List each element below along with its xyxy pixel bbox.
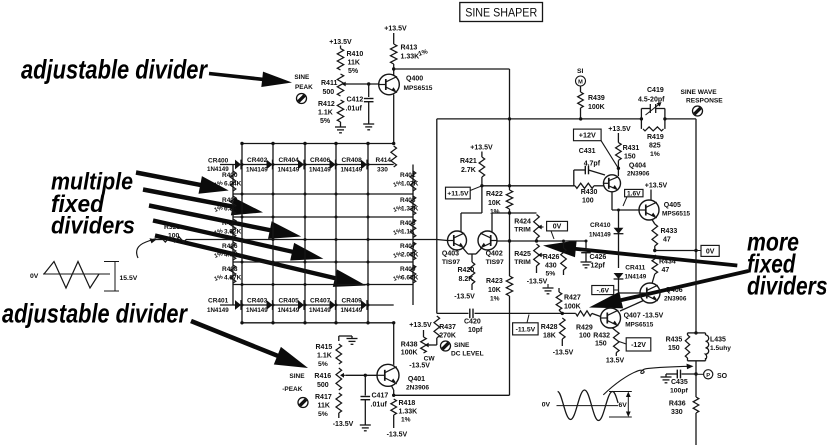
resistor R417 11K 5% bbox=[315, 393, 342, 418]
resistor R418 1.33K 1% bbox=[391, 399, 417, 428]
ground (C426) bbox=[581, 262, 592, 268]
svg-text:RESPONSE: RESPONSE bbox=[686, 98, 723, 105]
diode CR401 1N4149 bbox=[207, 298, 241, 315]
wire output line (right edge) bbox=[694, 119, 697, 445]
svg-text:R403: R403 bbox=[400, 197, 416, 204]
diode CR404 1N4149 bbox=[278, 157, 305, 174]
wire bottom diode row bbox=[220, 304, 394, 306]
svg-text:CR401: CR401 bbox=[208, 298, 229, 305]
svg-text:150: 150 bbox=[624, 154, 636, 161]
svg-text:1N4149: 1N4149 bbox=[278, 307, 300, 314]
resistor R415 1.1K 5% bbox=[316, 344, 342, 368]
svg-text:100K: 100K bbox=[401, 350, 418, 357]
svg-text:+13.5V: +13.5V bbox=[329, 39, 352, 46]
transistor Q406 2N3906 bbox=[640, 283, 687, 303]
wire feedback top bus right of C419 bbox=[665, 118, 696, 120]
transistor Q404 2N3906 bbox=[604, 163, 650, 192]
svg-text:12pf: 12pf bbox=[591, 263, 606, 270]
svg-text:18K: 18K bbox=[543, 333, 556, 340]
svg-text:-13.5V: -13.5V bbox=[527, 279, 548, 286]
diode CR408 1N4149 bbox=[341, 157, 368, 174]
resistor R430 100 bbox=[575, 183, 604, 204]
svg-text:4.7pf: 4.7pf bbox=[584, 161, 601, 168]
junction dots matrix bbox=[241, 163, 370, 307]
triangle wave sketch bbox=[43, 262, 138, 292]
ground (R412) bbox=[335, 122, 346, 133]
svg-text:-13.5V: -13.5V bbox=[387, 432, 408, 439]
curved pointer to R328 bbox=[137, 238, 157, 258]
potentiometer R438 100K bbox=[401, 330, 437, 357]
svg-text:1.1K: 1.1K bbox=[318, 110, 333, 117]
resistor R404 3.92K 1% bbox=[214, 219, 242, 238]
svg-text:R328: R328 bbox=[164, 224, 180, 231]
annotation more fixed dividers bbox=[747, 227, 828, 301]
svg-text:1.33K: 1.33K bbox=[401, 54, 420, 61]
svg-text:100pf: 100pf bbox=[670, 388, 688, 395]
svg-text:MPS6515: MPS6515 bbox=[625, 322, 654, 329]
svg-text:+12V: +12V bbox=[579, 131, 596, 140]
resistor R400 6.04K 1% bbox=[214, 171, 242, 191]
resistor R407 2.05K 1% bbox=[393, 242, 419, 260]
svg-text:R438: R438 bbox=[401, 342, 418, 349]
resistor R429 100 bbox=[576, 311, 593, 340]
svg-text:+13.5V: +13.5V bbox=[645, 183, 668, 190]
svg-text:CR411: CR411 bbox=[625, 265, 645, 272]
svg-text:1N4149: 1N4149 bbox=[341, 307, 363, 314]
annotation arrow to SINE -PEAK bbox=[190, 319, 308, 368]
diode CR406 1N4149 bbox=[309, 157, 336, 174]
resistor R436 330 bbox=[669, 397, 699, 416]
wire node to Q403 collector bbox=[461, 186, 482, 232]
svg-text:5%: 5% bbox=[348, 68, 359, 75]
transistor Q403 TIS97 bbox=[442, 231, 467, 266]
svg-text:R425: R425 bbox=[514, 251, 531, 258]
resistor R410 11K 5% bbox=[337, 49, 363, 76]
node 0V (output) bbox=[696, 245, 719, 256]
svg-text:-13.5V: -13.5V bbox=[333, 421, 354, 428]
resistor R433 47 bbox=[652, 220, 677, 251]
ground (C412) bbox=[363, 124, 374, 130]
svg-text:P: P bbox=[706, 373, 710, 379]
svg-text:10K: 10K bbox=[488, 287, 501, 294]
svg-text:R412: R412 bbox=[318, 101, 335, 108]
svg-text:1N4149: 1N4149 bbox=[278, 167, 300, 174]
svg-text:100: 100 bbox=[582, 198, 594, 205]
annotation arrow 1 into divider matrix bbox=[136, 170, 229, 194]
svg-text:R418: R418 bbox=[399, 400, 416, 407]
title box SINE SHAPER bbox=[460, 3, 543, 22]
svg-text:1N4149: 1N4149 bbox=[246, 307, 268, 314]
svg-text:.01uf: .01uf bbox=[346, 106, 363, 113]
svg-text:PEAK: PEAK bbox=[295, 84, 313, 91]
diode CR411 1N4149 bbox=[614, 265, 647, 281]
node +11.5V bbox=[446, 186, 482, 199]
svg-text:0V: 0V bbox=[30, 273, 39, 280]
svg-text:10pf: 10pf bbox=[468, 327, 483, 334]
screwdriver adjust SINE -PEAK bbox=[298, 398, 308, 408]
svg-text:0V: 0V bbox=[706, 248, 715, 255]
wire C420 line bbox=[437, 312, 576, 315]
svg-text:CR402: CR402 bbox=[247, 157, 268, 164]
svg-text:6.3K: 6.3K bbox=[224, 206, 238, 213]
svg-text:1N4149: 1N4149 bbox=[207, 307, 229, 314]
resistor R423 10K 1% bbox=[486, 276, 513, 303]
annotation arrow 3 into divider matrix bbox=[149, 203, 302, 239]
svg-text:R422: R422 bbox=[486, 191, 503, 198]
svg-text:R429: R429 bbox=[576, 325, 593, 332]
svg-text:M: M bbox=[578, 80, 583, 86]
wire matrix top bus bbox=[240, 142, 395, 145]
svg-text:R437: R437 bbox=[439, 324, 456, 331]
svg-text:CR404: CR404 bbox=[279, 157, 300, 164]
resistor R405 1.1K 1% bbox=[393, 219, 416, 238]
svg-text:1.6V: 1.6V bbox=[627, 191, 641, 198]
svg-text:11K: 11K bbox=[318, 403, 330, 410]
svg-text:6.65K: 6.65K bbox=[401, 275, 419, 282]
svg-text:-PEAK: -PEAK bbox=[282, 386, 303, 393]
transistor Q401 2N3906 bbox=[377, 364, 429, 391]
annotation arrow to SINE PEAK bbox=[209, 72, 292, 87]
wire R416 wiper to Q401 base bbox=[340, 373, 377, 378]
svg-text:CR407: CR407 bbox=[310, 298, 331, 305]
resistor R328 100 bbox=[155, 224, 233, 242]
svg-text:10K: 10K bbox=[488, 200, 501, 207]
svg-text:+13.5V: +13.5V bbox=[409, 322, 432, 329]
svg-text:CR405: CR405 bbox=[279, 298, 300, 305]
svg-text:11K: 11K bbox=[348, 60, 360, 67]
resistor R402 6.3K 1% bbox=[214, 196, 238, 215]
svg-text:R413: R413 bbox=[401, 45, 418, 52]
wire R411 wiper to Q400 base bbox=[345, 83, 380, 85]
node +13.5V (R413 top) bbox=[384, 26, 407, 33]
svg-text:R436: R436 bbox=[669, 401, 686, 408]
wire feedback box left edge bbox=[436, 119, 438, 314]
svg-text:1N4149: 1N4149 bbox=[309, 307, 331, 314]
svg-text:5%: 5% bbox=[318, 361, 328, 368]
svg-text:1N4149: 1N4149 bbox=[341, 167, 363, 174]
diode CR407 1N4149 bbox=[309, 298, 336, 315]
screwdriver adjust SINE WAVE RESPONSE bbox=[693, 106, 703, 116]
wire R422 bottom to R424 bbox=[510, 212, 537, 214]
node +13.5V (R410 top) bbox=[329, 39, 352, 46]
svg-text:1%: 1% bbox=[650, 151, 660, 158]
wire bbox=[340, 46, 342, 49]
annotation arrow left-down to Q407 bbox=[589, 269, 749, 308]
svg-text:6.04K: 6.04K bbox=[224, 181, 242, 188]
svg-text:CR406: CR406 bbox=[310, 157, 331, 164]
resistor R427 100K bbox=[556, 288, 581, 313]
svg-text:SO: SO bbox=[717, 373, 728, 380]
resistor R408 4.87K 1% bbox=[214, 265, 242, 283]
annotation arrow left-up to 0V trim node bbox=[543, 240, 738, 267]
node -.6V bbox=[592, 286, 619, 295]
ground (R415 top) bbox=[339, 336, 358, 344]
wire emitters Q403/Q402 join bbox=[463, 248, 482, 262]
wire diode chain CR410/CR411 bbox=[617, 209, 640, 294]
diode CR405 1N4149 bbox=[278, 298, 305, 315]
svg-text:4.87K: 4.87K bbox=[224, 275, 242, 282]
wire matrix right column bbox=[412, 165, 414, 306]
svg-text:330: 330 bbox=[671, 409, 683, 416]
svg-text:CR403: CR403 bbox=[247, 298, 268, 305]
svg-text:-13.5V: -13.5V bbox=[553, 350, 574, 357]
svg-text:3.92K: 3.92K bbox=[224, 229, 242, 236]
wire Q401 collector to matrix bus bbox=[393, 323, 395, 365]
node +12V bbox=[574, 129, 619, 168]
transistor Q405 MPS6515 bbox=[639, 200, 691, 220]
node +13.5V (Q405 collector) bbox=[645, 183, 668, 201]
terminal SI bbox=[576, 68, 586, 86]
svg-text:R414: R414 bbox=[376, 157, 392, 164]
wire matrix left column bbox=[232, 165, 234, 306]
resistor R420 8.2K bbox=[458, 262, 475, 290]
svg-text:R431: R431 bbox=[623, 145, 640, 152]
svg-text:+11.5V: +11.5V bbox=[447, 191, 469, 198]
ground (C435) bbox=[661, 374, 672, 383]
svg-text:2N3906: 2N3906 bbox=[406, 385, 429, 392]
wire Q406 emitter to Q407 collector bbox=[620, 301, 644, 312]
svg-text:2N3906: 2N3906 bbox=[627, 171, 650, 178]
svg-text:CW: CW bbox=[424, 356, 436, 363]
squiggle pointer to output bbox=[603, 364, 693, 395]
wire matrix bottom bus bbox=[240, 321, 395, 324]
svg-text:MPS6515: MPS6515 bbox=[662, 211, 691, 218]
svg-text:1.5uhy: 1.5uhy bbox=[710, 345, 731, 352]
svg-text:2.05K: 2.05K bbox=[401, 252, 419, 259]
diode CR409 1N4149 bbox=[341, 298, 368, 315]
svg-text:100: 100 bbox=[168, 233, 180, 240]
resistor R413 1.33K 1% bbox=[391, 33, 429, 69]
annotation adjustable divider (top) bbox=[21, 55, 208, 85]
diode CR410 1N4149 bbox=[589, 222, 623, 239]
svg-text:1.1K: 1.1K bbox=[317, 353, 332, 360]
capacitor C412 .01uf bbox=[346, 82, 374, 124]
node -13.5V (R420) bbox=[454, 294, 475, 301]
svg-text:2.7K: 2.7K bbox=[461, 167, 476, 174]
resistor R401 1.07K 1% bbox=[393, 171, 419, 191]
svg-text:SI: SI bbox=[577, 68, 584, 75]
svg-text:R401: R401 bbox=[400, 172, 416, 179]
screwdriver adjust SINE DC LEVEL bbox=[441, 341, 484, 358]
svg-text:R416: R416 bbox=[314, 373, 331, 380]
svg-text:TRIM: TRIM bbox=[514, 227, 531, 234]
svg-text:1.33K: 1.33K bbox=[401, 206, 419, 213]
label SINE WAVE RESPONSE bbox=[681, 89, 724, 105]
svg-text:R405: R405 bbox=[400, 220, 416, 227]
svg-text:R410: R410 bbox=[347, 51, 364, 58]
node 0V (trim) bbox=[547, 221, 568, 239]
svg-text:Q407 -13.5V: Q407 -13.5V bbox=[624, 313, 664, 320]
svg-text:TIS97: TIS97 bbox=[442, 259, 460, 266]
wire R433/R434 node to output line bbox=[653, 249, 696, 252]
node +13.5V (R437) bbox=[409, 322, 432, 329]
svg-text:+13.5V: +13.5V bbox=[470, 145, 493, 152]
wire base line to Q404 bbox=[480, 184, 575, 187]
svg-text:47: 47 bbox=[662, 267, 670, 274]
svg-text:-.6V: -.6V bbox=[597, 288, 610, 295]
svg-text:4.0K: 4.0K bbox=[224, 252, 238, 259]
potentiometer R416 500 bbox=[314, 368, 341, 390]
ground (R427 top) bbox=[543, 284, 554, 294]
sine wave sketch bbox=[557, 390, 632, 421]
wire Q402 base to trim network bbox=[497, 239, 586, 242]
potentiometer R424 TRIM bbox=[514, 215, 543, 243]
wire top diode row bbox=[220, 164, 394, 166]
svg-text:C417: C417 bbox=[372, 393, 389, 400]
resistor R428 18K bbox=[541, 318, 565, 346]
node +13.5V (R431 top) bbox=[608, 126, 631, 133]
resistor R419 825 1% bbox=[643, 127, 664, 158]
label 0V (sine sketch) bbox=[542, 402, 551, 409]
svg-text:150: 150 bbox=[668, 345, 680, 352]
transistor Q402 TIS97 bbox=[478, 231, 504, 266]
node -11.5V bbox=[513, 315, 539, 335]
node -12V bbox=[619, 338, 651, 351]
svg-text:R430: R430 bbox=[581, 189, 598, 196]
svg-text:825: 825 bbox=[649, 143, 661, 150]
svg-text:SINE: SINE bbox=[294, 74, 310, 81]
svg-text:100K: 100K bbox=[564, 304, 581, 311]
wire Q400 collector to R413 bbox=[392, 67, 395, 75]
svg-text:R407: R407 bbox=[400, 243, 416, 250]
svg-text:TRIM: TRIM bbox=[514, 259, 531, 266]
annotation multiple fixed dividers bbox=[51, 169, 135, 240]
wire Q400 emitter to matrix bbox=[393, 95, 395, 144]
svg-text:dividers: dividers bbox=[747, 271, 828, 301]
node 1.6V bbox=[623, 189, 643, 206]
resistor R422 10K 1% bbox=[486, 190, 513, 216]
svg-text:+13.5V: +13.5V bbox=[384, 26, 407, 33]
svg-text:DC LEVEL: DC LEVEL bbox=[451, 351, 484, 358]
inductor L435 1.5uhy bbox=[688, 333, 732, 361]
svg-text:C435: C435 bbox=[671, 379, 688, 386]
annotation adjustable divider (bottom) bbox=[2, 299, 188, 329]
svg-text:R419: R419 bbox=[647, 134, 664, 141]
svg-text:150: 150 bbox=[595, 341, 607, 348]
svg-text:270K: 270K bbox=[439, 333, 456, 340]
svg-text:15.5V: 15.5V bbox=[120, 275, 138, 282]
node -13.5V (R438) bbox=[409, 363, 430, 370]
diode CR403 1N4149 bbox=[246, 298, 273, 315]
svg-text:13.5V: 13.5V bbox=[606, 358, 625, 365]
svg-text:R415: R415 bbox=[316, 344, 333, 351]
svg-text:CR408: CR408 bbox=[342, 157, 363, 164]
annotation arrow 5 into divider matrix bbox=[155, 233, 367, 287]
svg-text:R400: R400 bbox=[222, 172, 238, 179]
capacitor C431 4.7pf bbox=[574, 148, 605, 186]
svg-text:R424: R424 bbox=[514, 219, 531, 226]
svg-text:5%: 5% bbox=[318, 411, 328, 418]
svg-text:CR400: CR400 bbox=[208, 158, 229, 165]
svg-text:47: 47 bbox=[663, 237, 671, 244]
svg-text:100: 100 bbox=[579, 333, 591, 340]
svg-text:Q400: Q400 bbox=[406, 76, 423, 83]
svg-text:-13.5V: -13.5V bbox=[409, 363, 430, 370]
svg-text:R411: R411 bbox=[321, 80, 337, 87]
annotation arrow 4 into divider matrix bbox=[153, 218, 324, 260]
svg-text:SINE SHAPER: SINE SHAPER bbox=[465, 5, 537, 19]
node 13.5V (R432) bbox=[606, 358, 625, 365]
svg-text:-12V: -12V bbox=[631, 342, 646, 349]
svg-text:Q403: Q403 bbox=[442, 251, 459, 258]
svg-text:SINE: SINE bbox=[289, 373, 305, 380]
potentiometer R411 500 bbox=[321, 74, 348, 96]
svg-text:-11.5V: -11.5V bbox=[516, 326, 536, 333]
svg-text:R408: R408 bbox=[222, 266, 238, 273]
svg-text:5%: 5% bbox=[320, 118, 331, 125]
resistor R426 430 5% bbox=[543, 240, 567, 278]
svg-text:6V: 6V bbox=[619, 402, 628, 409]
svg-text:C420: C420 bbox=[464, 319, 481, 326]
svg-text:R426: R426 bbox=[543, 254, 560, 261]
svg-text:C412: C412 bbox=[347, 97, 364, 104]
svg-text:430: 430 bbox=[545, 263, 557, 270]
svg-text:C431: C431 bbox=[579, 148, 596, 155]
node -13.5V (R425/R426) bbox=[527, 279, 548, 286]
svg-text:SINE: SINE bbox=[454, 342, 470, 349]
diode CR400 1N4149 bbox=[207, 158, 241, 174]
svg-text:Q404: Q404 bbox=[629, 163, 646, 170]
ground (C417) bbox=[360, 425, 371, 431]
svg-text:0V: 0V bbox=[542, 402, 551, 409]
svg-text:C426: C426 bbox=[590, 254, 607, 261]
wire matrix row lines bbox=[233, 194, 413, 285]
svg-text:R427: R427 bbox=[564, 295, 581, 302]
svg-text:Q405: Q405 bbox=[664, 202, 681, 209]
wire feedback vertical (collector sense) bbox=[394, 69, 510, 395]
trimmer capacitor C419 4.5-20pf bbox=[638, 87, 667, 129]
node -13.5V (R428) bbox=[553, 350, 574, 357]
svg-text:CR410: CR410 bbox=[590, 222, 611, 229]
svg-text:R421: R421 bbox=[460, 158, 477, 165]
svg-text:CR409: CR409 bbox=[342, 298, 363, 305]
transistor Q407 MPS6515 bbox=[601, 308, 664, 329]
terminal P SO output bbox=[696, 370, 728, 380]
svg-text:1.33K: 1.33K bbox=[399, 409, 418, 416]
svg-text:R409: R409 bbox=[400, 266, 416, 273]
resistor R412 1.1K 5% bbox=[318, 100, 344, 125]
resistor R406 4.0K 1% bbox=[214, 242, 238, 260]
svg-text:500: 500 bbox=[317, 382, 329, 389]
wire collector node to feedback line bbox=[394, 68, 510, 70]
diode CR402 1N4149 bbox=[246, 157, 273, 174]
wire matrix vertical lines bbox=[242, 144, 368, 323]
screwdriver adjust SINE PEAK bbox=[297, 94, 307, 104]
svg-text:R434: R434 bbox=[659, 259, 676, 266]
node -13.5V (R417) bbox=[333, 413, 354, 428]
svg-text:R406: R406 bbox=[222, 243, 238, 250]
resistor R435 150 bbox=[666, 333, 696, 361]
svg-text:dividers: dividers bbox=[51, 213, 135, 240]
svg-text:Q401: Q401 bbox=[408, 376, 425, 383]
wire R429 to Q407 base bbox=[592, 313, 601, 316]
resistor R421 2.7K bbox=[460, 145, 493, 186]
svg-text:SINE WAVE: SINE WAVE bbox=[681, 89, 718, 96]
svg-text:R435: R435 bbox=[666, 337, 683, 344]
svg-text:100K: 100K bbox=[588, 104, 605, 111]
potentiometer R425 TRIM bbox=[514, 244, 543, 273]
svg-text:0V: 0V bbox=[553, 224, 562, 231]
svg-text:1%: 1% bbox=[401, 417, 411, 424]
svg-text:8.2K: 8.2K bbox=[459, 276, 474, 283]
resistor R434 47 bbox=[652, 255, 676, 284]
svg-text:Q406: Q406 bbox=[666, 287, 683, 294]
label SINE PEAK bbox=[294, 74, 313, 91]
capacitor C417 .01uf bbox=[361, 375, 389, 425]
svg-text:R404: R404 bbox=[222, 220, 238, 227]
potentiometer R437 270K bbox=[434, 316, 456, 340]
svg-text:R402: R402 bbox=[222, 197, 238, 204]
